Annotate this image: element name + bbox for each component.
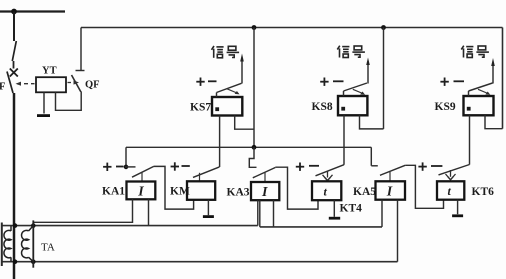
polarity minus KS7 (208, 80, 217, 82)
wire feeder vertical upper (13, 12, 15, 42)
wire KA5 left lead down (381, 200, 383, 227)
node top bus KS7 branch (252, 25, 257, 30)
wire KS9 left lead down (469, 115, 471, 164)
wire top feeder bus (0, 10, 65, 12)
contact blade KA5 (380, 165, 405, 175)
relay KS8 box (338, 96, 367, 115)
wire middle bus (126, 146, 371, 148)
terminal mark KS7 (215, 107, 219, 111)
svg-text:KA3: KA3 (227, 187, 250, 199)
svg-text:TA: TA (41, 242, 55, 254)
node CT1 top (13, 223, 18, 228)
bus left end vertical (1, 223, 3, 267)
polarity plus KS9 (440, 78, 448, 86)
contact tick KS9 (468, 91, 470, 96)
disconnector blade QS (12, 41, 16, 61)
terminal mark KS8 (341, 107, 345, 111)
contact blade KT4 (316, 165, 345, 176)
wire top bus right drop (502, 28, 504, 129)
transformer TA2 winding (22, 226, 34, 262)
polarity minus KS9 (454, 80, 465, 82)
svg-text:KA5: KA5 (353, 186, 376, 198)
relay KT6 box (437, 181, 464, 199)
wire YT to QF contact loop (56, 92, 82, 111)
wire middle bus left drop (125, 147, 127, 167)
node CT2 bottom (31, 259, 36, 264)
wire KA3 left lead down (257, 200, 259, 225)
contact blade KS8 (344, 83, 368, 91)
contact tick KA5 (389, 172, 391, 181)
wire CT top bus left segment (1, 225, 258, 227)
wire middle bus right drop (370, 147, 372, 166)
wire KA1 contact stub (125, 166, 136, 168)
wire KS7 right lead loop (235, 116, 254, 130)
wire relay link bus right segment (260, 200, 382, 227)
contact tick KA1 (141, 172, 143, 181)
contact blade KS9 (469, 83, 493, 91)
contact blade QF aux (72, 75, 81, 92)
label KM (170, 186, 190, 198)
wire KS9 right lead loop (485, 115, 503, 128)
label KA5 (353, 186, 376, 198)
contact blade KA3 (253, 168, 275, 178)
flag arrow KS8 (353, 89, 365, 95)
delay arrow KT4 (323, 171, 333, 181)
svg-text:KA1: KA1 (102, 186, 125, 198)
polarity minus KT4 (309, 165, 319, 167)
polarity plus KS8 (320, 78, 328, 86)
svg-text:QF: QF (85, 80, 100, 91)
contact blade KS7 (217, 83, 242, 92)
symbol t in KT4 (324, 185, 328, 199)
node top bus KS8 branch (381, 25, 386, 30)
coil YT box (36, 77, 66, 92)
relay KT4 box (312, 181, 341, 200)
relay KA3 box (251, 182, 279, 200)
relay KA5 box (376, 181, 406, 199)
label F (0, 82, 5, 93)
signal arrow line KS9 (491, 58, 495, 84)
node KA1 contact feed (124, 165, 129, 170)
svg-text:KT6: KT6 (472, 186, 495, 198)
svg-text:I: I (386, 185, 393, 200)
breaker X mark QF (10, 69, 18, 77)
polarity minus KM (182, 165, 190, 167)
svg-text:KS9: KS9 (435, 101, 456, 113)
ground bar KM (203, 215, 214, 218)
wire KM ground lead (207, 200, 209, 215)
wire KA1 contact right lead (154, 166, 194, 209)
terminal mark KS9 (467, 107, 471, 111)
label xinhao signal 1 (212, 46, 240, 58)
node CT2 top (31, 223, 36, 228)
symbol t in KT6 (448, 184, 452, 198)
label KS8 (312, 101, 333, 113)
wire KA5 contact stub (371, 165, 378, 167)
label xinhao signal 3 (461, 46, 489, 58)
wire KS7 left lead down (219, 116, 221, 168)
svg-text:I: I (137, 185, 144, 200)
wire KA3 contact feed jog (249, 147, 256, 167)
label KT4 (340, 203, 363, 215)
mechanical linkage dashed left (16, 82, 35, 86)
svg-text:KS7: KS7 (190, 102, 211, 114)
wire feeder vertical lower (13, 93, 16, 279)
node feeder junction (11, 9, 17, 15)
label YT (42, 66, 57, 77)
wire KA1 left lead to CT (33, 199, 132, 222)
symbol I in KA5 (386, 185, 393, 200)
symbol I in KA3 (261, 185, 268, 200)
label TA (41, 242, 55, 254)
contactor KM box (187, 181, 215, 200)
transformer TA2 primary (32, 220, 34, 267)
mechanical linkage dashed right (68, 80, 80, 84)
polarity minus KT6 (431, 165, 442, 167)
ground bar KT4 (329, 217, 340, 220)
contact blade KM (193, 167, 219, 178)
svg-text:KT4: KT4 (340, 203, 363, 215)
flag arrow KS7 (227, 89, 240, 95)
label KT6 (472, 186, 495, 198)
polarity plus KM (171, 162, 179, 170)
signal arrow line KS8 (366, 58, 370, 84)
svg-text:I: I (261, 185, 268, 200)
wire KA5 contact right lead (405, 165, 443, 208)
label KA1 (102, 186, 125, 198)
wire KA5 right lead down (397, 200, 399, 262)
contact blade KA1 (132, 167, 154, 178)
polarity plus KT6 (418, 162, 426, 170)
wire YT negative lead (43, 92, 45, 113)
polarity minus KA1 (116, 166, 124, 168)
transformer TA1 winding (4, 226, 11, 262)
terminal negative bar under YT (37, 114, 50, 117)
label KS7 (190, 102, 211, 114)
breaker blade QF (7, 72, 13, 94)
relay KS7 box (212, 97, 242, 116)
contact tick KS8 (343, 91, 345, 96)
ground bar KT6 (452, 214, 463, 217)
wire KA3 contact right lead (275, 167, 318, 209)
node middle bus KS7 (252, 145, 257, 150)
delay arrow KT6 (446, 170, 456, 180)
label QF (85, 80, 100, 91)
contact tick KS7 (216, 93, 218, 97)
node CT1 bottom (13, 259, 18, 264)
contact tick KM (199, 173, 201, 182)
wire top bus (81, 27, 503, 29)
polarity minus KS8 (333, 80, 344, 82)
contact blade KT6 (439, 165, 470, 175)
symbol I in KA1 (137, 185, 144, 200)
svg-text:KS8: KS8 (312, 101, 333, 113)
wire KS8 left lead down (343, 115, 345, 165)
relay KS9 box (464, 96, 494, 115)
label KS9 (435, 101, 456, 113)
polarity plus KS7 (196, 78, 204, 86)
wire feeder mid stub (13, 61, 15, 69)
contact fixed tick QF aux (76, 70, 85, 72)
wire KA1 right lead down (148, 199, 150, 225)
polarity plus KA1 (103, 163, 111, 171)
polarity plus KT4 (296, 163, 304, 171)
wire KS8 right lead loop (360, 115, 384, 129)
label KA3 (227, 187, 250, 199)
wire KS7 branch vertical (253, 28, 255, 148)
flag arrow KS9 (478, 89, 490, 95)
svg-text:F: F (0, 82, 5, 93)
wire QF aux to top bus (80, 28, 82, 71)
wire CT bottom bus (1, 261, 398, 263)
svg-text:YT: YT (42, 66, 57, 77)
signal arrow line KS7 (240, 54, 244, 84)
wire KT6 ground lead (457, 200, 459, 215)
wire KA3 right lead down (273, 200, 275, 227)
wire KS8 branch vertical (383, 28, 385, 129)
wire KT4 ground lead (333, 200, 335, 217)
contact tick KA3 (264, 173, 266, 182)
label xinhao signal 2 (337, 46, 365, 58)
relay KA1 box (127, 182, 156, 200)
